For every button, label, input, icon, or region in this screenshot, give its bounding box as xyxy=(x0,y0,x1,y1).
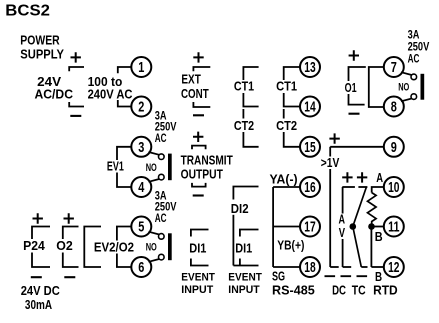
terminal 4 xyxy=(131,177,151,197)
bracket O1 to terminals 7 8 xyxy=(369,67,384,107)
svg-text:12: 12 xyxy=(388,260,399,276)
svg-text:TC: TC xyxy=(352,282,366,297)
bracket RS-485 vertical xyxy=(272,187,274,267)
svg-text:4: 4 xyxy=(138,180,144,196)
bracket O2 upper xyxy=(63,227,79,240)
svg-text:AC: AC xyxy=(408,53,420,65)
svg-text:14: 14 xyxy=(304,100,315,116)
svg-text:6: 6 xyxy=(138,260,144,276)
svg-text:B: B xyxy=(375,229,383,244)
svg-text:>1V: >1V xyxy=(321,155,340,170)
plus ext cont xyxy=(193,52,203,62)
bracket DI1 upper arm xyxy=(191,230,209,237)
bracket EV2/O2 external upper arm xyxy=(84,227,101,268)
svg-text:EV2/O2: EV2/O2 xyxy=(94,239,134,254)
svg-text:1: 1 xyxy=(138,60,144,76)
svg-text:DC: DC xyxy=(332,282,346,297)
bracket EV2/O2 to terminal 5 xyxy=(117,227,132,241)
terminal 2 xyxy=(131,97,151,117)
svg-text:DI1: DI1 xyxy=(189,240,206,255)
svg-text:CT1: CT1 xyxy=(234,79,254,94)
wire DC input vertical lower xyxy=(342,239,344,267)
plus P24 xyxy=(33,213,43,223)
bracket O1 lower xyxy=(349,94,365,105)
svg-text:16: 16 xyxy=(304,180,315,196)
svg-text:17: 17 xyxy=(304,220,315,236)
svg-text:AC: AC xyxy=(155,213,167,225)
plus DC voltage input xyxy=(329,133,339,143)
bracket DI1 second upper arm xyxy=(240,230,259,237)
plus transmit output xyxy=(193,132,203,142)
bracket DC input top arm xyxy=(342,186,355,188)
svg-text:250V: 250V xyxy=(408,41,430,53)
svg-text:CT1: CT1 xyxy=(276,79,297,94)
svg-text:DI2: DI2 xyxy=(231,201,249,216)
svg-text:5: 5 xyxy=(138,220,144,236)
svg-text:INPUT: INPUT xyxy=(181,284,213,296)
bracket CT external bottom arm xyxy=(243,132,258,147)
contact point EV2/O2 lower xyxy=(159,254,165,260)
svg-text:INPUT: INPUT xyxy=(228,284,260,296)
minus P24 xyxy=(31,276,42,278)
minus power supply xyxy=(70,115,81,117)
svg-text:250V: 250V xyxy=(155,122,177,134)
wire to terminal 2 xyxy=(118,100,132,107)
terminal 17 xyxy=(300,217,320,237)
contact point EV1 lower xyxy=(159,174,165,180)
wire RTD B to terminal 11 xyxy=(372,226,384,228)
terminal 5 xyxy=(131,217,151,237)
bracket EV2/O2 to terminal 6 xyxy=(117,254,132,268)
contact point O1 upper xyxy=(411,74,417,80)
terminal 3 xyxy=(131,137,151,157)
bracket CT external middle arm xyxy=(243,93,258,107)
bracket CT terminals middle arm xyxy=(284,93,300,107)
wire DC voltage minus vertical upper xyxy=(329,147,331,157)
wire RTD B vertical xyxy=(370,227,372,268)
svg-text:250V: 250V xyxy=(155,202,177,214)
svg-text:3A: 3A xyxy=(408,29,420,41)
svg-text:EVENT: EVENT xyxy=(228,272,262,284)
svg-text:YB(+): YB(+) xyxy=(277,237,304,252)
plus TC input xyxy=(357,172,367,182)
relay NO contact bar O1 xyxy=(421,74,425,100)
contact point O1 lower xyxy=(411,94,417,100)
svg-text:O1: O1 xyxy=(345,80,357,95)
terminal 12 xyxy=(384,257,404,277)
wire EV2/O2 contact arm upper xyxy=(149,232,160,235)
plus DC input xyxy=(342,172,352,182)
svg-text:EVENT: EVENT xyxy=(181,271,215,283)
svg-text:2: 2 xyxy=(138,100,144,116)
terminal 11 xyxy=(384,217,404,237)
wire TC foot xyxy=(361,266,367,268)
bracket P24 lower xyxy=(32,253,50,268)
bracket DI2 vertical lower xyxy=(232,215,234,266)
svg-text:13: 13 xyxy=(304,60,315,76)
svg-text:NO: NO xyxy=(398,82,409,94)
resistor RTD element xyxy=(368,193,377,227)
bracket CT external vertical xyxy=(242,109,244,119)
svg-text:CONT: CONT xyxy=(181,86,209,101)
wire TC upper leg xyxy=(353,187,367,227)
plus O1 xyxy=(349,50,359,60)
dashed common line xyxy=(325,275,368,277)
bracket CT terminals vertical xyxy=(283,109,285,119)
wire EV1 contact arm lower xyxy=(149,179,160,182)
bracket transmit output upper xyxy=(192,146,206,150)
wire to terminal 9 xyxy=(330,146,384,148)
svg-text:NO: NO xyxy=(146,242,157,254)
svg-text:11: 11 xyxy=(388,220,399,236)
terminal 14 xyxy=(300,97,320,117)
bracket RS-485 arm to 16 xyxy=(273,186,300,188)
svg-text:BCS2: BCS2 xyxy=(5,2,50,19)
wire DC input vertical upper xyxy=(342,187,344,214)
wire DC voltage minus foot xyxy=(330,266,339,268)
bracket DI1 second lower tick xyxy=(239,259,241,266)
bracket EXT CONT upper arm xyxy=(193,67,210,71)
minus transmit output xyxy=(193,194,204,196)
svg-text:EXT: EXT xyxy=(181,71,200,86)
svg-text:EV1: EV1 xyxy=(107,158,124,173)
bracket P24 upper xyxy=(32,227,50,240)
svg-text:3A: 3A xyxy=(155,110,167,122)
wire DC voltage minus vertical lower xyxy=(329,169,331,267)
terminal 1 xyxy=(131,57,151,77)
terminal 10 xyxy=(384,177,404,197)
bracket O2 lower xyxy=(63,253,79,268)
svg-text:CT2: CT2 xyxy=(276,118,297,133)
svg-text:YA(-): YA(-) xyxy=(270,171,298,186)
terminal 16 xyxy=(300,177,320,197)
relay NO contact bar EV1 xyxy=(168,154,172,181)
junction RTD B node xyxy=(368,223,375,230)
svg-text:240V AC: 240V AC xyxy=(88,87,133,102)
bracket transmit output lower xyxy=(192,183,206,187)
bracket CT terminals bottom arm xyxy=(284,132,300,147)
svg-text:30mA: 30mA xyxy=(25,297,53,312)
svg-text:NO: NO xyxy=(146,162,157,174)
terminal 6 xyxy=(131,257,151,277)
wire DC input foot xyxy=(343,266,352,268)
contact point EV2/O2 upper xyxy=(159,234,165,240)
terminal 15 xyxy=(300,137,320,157)
terminal 13 xyxy=(300,57,320,77)
bracket RS-485 arm to 18 xyxy=(273,266,300,268)
bracket O1 upper xyxy=(349,67,366,81)
svg-text:OUTPUT: OUTPUT xyxy=(181,167,223,182)
svg-text:AC: AC xyxy=(155,133,167,145)
svg-text:7: 7 xyxy=(391,60,397,76)
svg-text:3: 3 xyxy=(138,140,144,156)
svg-text:RTD: RTD xyxy=(373,282,398,297)
bracket EV1 upper xyxy=(117,147,132,160)
wire TC lower leg xyxy=(353,227,362,268)
bracket RS-485 arm to 17 xyxy=(273,226,300,228)
svg-text:8: 8 xyxy=(391,100,397,116)
svg-text:AC/DC: AC/DC xyxy=(35,87,74,102)
relay NO contact bar EV2/O2 xyxy=(168,233,172,260)
plus O2 xyxy=(64,213,74,223)
contact point EV1 upper xyxy=(159,154,165,160)
wire O1 contact arm upper xyxy=(401,72,412,75)
svg-text:18: 18 xyxy=(304,260,315,276)
svg-text:DI1: DI1 xyxy=(235,240,252,255)
svg-text:P24: P24 xyxy=(23,238,45,253)
bracket DI2 bottom arm xyxy=(233,265,258,267)
wire EV2/O2 contact arm lower xyxy=(149,259,160,262)
svg-text:15: 15 xyxy=(304,140,315,156)
svg-text:POWER: POWER xyxy=(20,32,60,47)
terminal 8 xyxy=(384,97,404,117)
junction TC measuring point xyxy=(350,223,357,230)
wire O1 contact arm lower xyxy=(401,99,412,102)
svg-text:SUPPLY: SUPPLY xyxy=(20,47,64,62)
svg-text:10: 10 xyxy=(388,180,399,196)
svg-text:RS-485: RS-485 xyxy=(272,282,315,297)
bracket 24V supply upper arm xyxy=(69,67,84,71)
svg-text:CT2: CT2 xyxy=(234,118,254,133)
svg-text:TRANSMIT: TRANSMIT xyxy=(181,153,233,168)
terminal 18 xyxy=(300,257,320,277)
svg-text:A: A xyxy=(376,170,383,185)
wire to terminal 1 xyxy=(118,67,132,73)
svg-text:V: V xyxy=(339,225,346,240)
wire EV1 contact arm upper xyxy=(149,152,160,155)
plus power supply xyxy=(71,52,81,62)
minus O2 xyxy=(64,276,75,278)
minus O1 xyxy=(349,113,360,115)
bracket CT terminals top arm xyxy=(284,67,300,80)
svg-text:O2: O2 xyxy=(56,238,73,253)
bracket DI1 lower arm xyxy=(191,259,209,266)
bracket CT external top arm xyxy=(243,67,258,80)
terminal 9 xyxy=(384,137,404,157)
bracket DI2 upper arm xyxy=(233,187,258,200)
wire RTD A to terminal 10 xyxy=(372,187,384,193)
terminal 7 xyxy=(384,57,404,77)
bracket TC input top tick xyxy=(358,186,367,188)
wire RTD B to terminal 12 xyxy=(371,266,383,268)
bracket EV1 lower xyxy=(117,173,132,188)
bracket 24V supply lower arm xyxy=(69,102,84,107)
bracket EXT CONT lower arm xyxy=(193,102,210,107)
minus ext cont xyxy=(193,114,204,116)
svg-text:9: 9 xyxy=(391,140,397,156)
